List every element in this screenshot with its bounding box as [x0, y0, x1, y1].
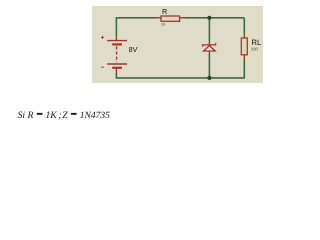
- svg-text:R: R: [162, 7, 167, 16]
- wire: left vertical upper (battery to top wire): [115, 17, 117, 35]
- svg-text:R: R: [27, 110, 34, 121]
- zener diode pin stub top: [208, 41, 210, 45]
- battery minus sign: [101, 66, 104, 68]
- wire: RL branch vertical lower: [243, 60, 245, 79]
- svg-text:8V: 8V: [129, 45, 138, 54]
- wire: zener branch vertical lower: [208, 54, 210, 78]
- svg-text:Si: Si: [18, 110, 26, 121]
- battery dashed link: [116, 46, 118, 62]
- wire: zener branch vertical upper: [208, 18, 210, 42]
- zener pin stub bottom: [208, 51, 210, 55]
- node junction dot bottom: [207, 76, 211, 80]
- battery pin stub bottom: [115, 69, 117, 73]
- svg-text:1K: 1K: [45, 110, 57, 121]
- zener cathode bar with bent ends: [203, 43, 216, 47]
- battery short plate 2: [112, 67, 122, 69]
- caption: Si R = 1K ; Z = 1N4735: [18, 110, 111, 121]
- schematic panel background: [92, 6, 263, 83]
- wire: RL branch vertical upper: [243, 18, 245, 34]
- wire: left vertical lower (battery to bottom wire): [115, 73, 117, 79]
- wire: top horizontal (R to RL corner): [186, 17, 245, 19]
- svg-text:330: 330: [251, 47, 259, 52]
- wire: bottom horizontal: [116, 77, 244, 79]
- svg-text:1K: 1K: [161, 23, 166, 27]
- svg-text:;: ;: [58, 110, 61, 121]
- battery plus sign: [101, 36, 104, 39]
- resistor RL pin stub bottom: [243, 55, 245, 60]
- resistor R pin stub left: [156, 17, 162, 19]
- resistor R pin stub right: [180, 17, 187, 19]
- resistor RL pin stub top: [243, 34, 245, 38]
- battery long plate 2: [107, 63, 127, 65]
- resistor RL body: [241, 38, 247, 55]
- zener anode triangle: [204, 46, 216, 51]
- svg-text:Z: Z: [62, 110, 68, 121]
- battery short plate 1: [112, 43, 122, 45]
- svg-text:1N4735: 1N4735: [80, 111, 110, 121]
- wire: top horizontal (battery to R): [116, 17, 156, 19]
- battery pin stub top: [115, 35, 117, 41]
- battery long plate 1: [107, 40, 127, 42]
- resistor R body: [161, 16, 180, 21]
- node junction dot top (R / zener / RL net): [207, 16, 211, 20]
